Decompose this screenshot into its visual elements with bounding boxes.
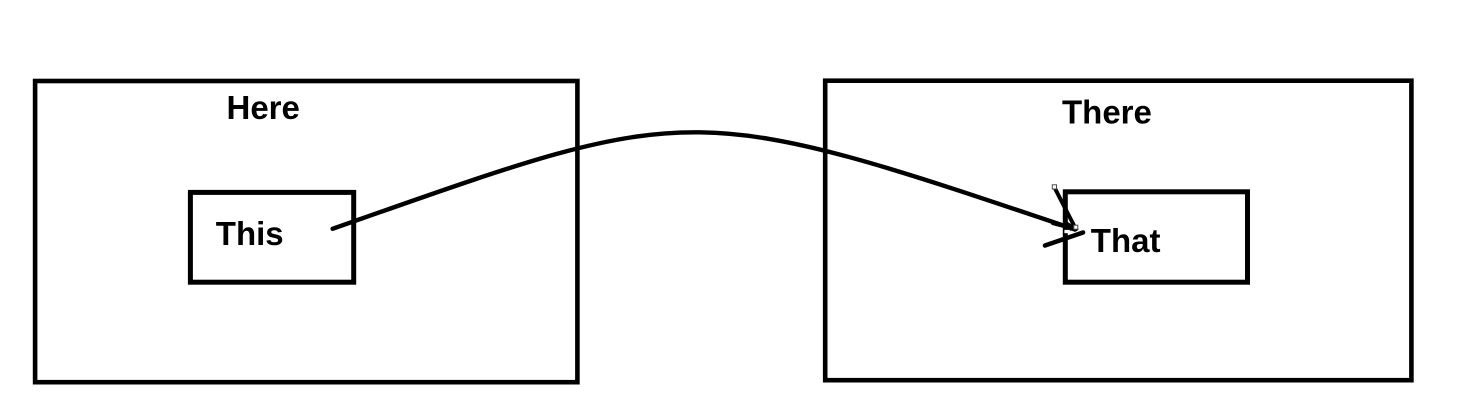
- svg-text:That: That: [1091, 222, 1161, 259]
- wire: curved connector from This to That: [333, 132, 1075, 229]
- selection handle (at tip): [1074, 225, 1078, 229]
- arrowhead upper stroke (selected line from handle to tip): [1055, 188, 1075, 227]
- selection handle (top): [1052, 185, 1056, 189]
- wire: curve end dip into tip: [1053, 223, 1076, 229]
- arrowhead solid tip wedge: [1066, 221, 1080, 232]
- box This (inner left rectangle): [190, 192, 353, 282]
- box Here (outer left rectangle): [35, 81, 577, 382]
- box There (outer right rectangle): [825, 81, 1411, 381]
- box That (inner right rectangle): [1065, 192, 1247, 282]
- svg-text:This: This: [216, 215, 284, 252]
- arrowhead lower stroke: [1045, 233, 1083, 246]
- white notch cutting box edge below wedge: [1064, 230, 1069, 233]
- svg-text:There: There: [1062, 94, 1152, 131]
- svg-text:Here: Here: [227, 89, 300, 126]
